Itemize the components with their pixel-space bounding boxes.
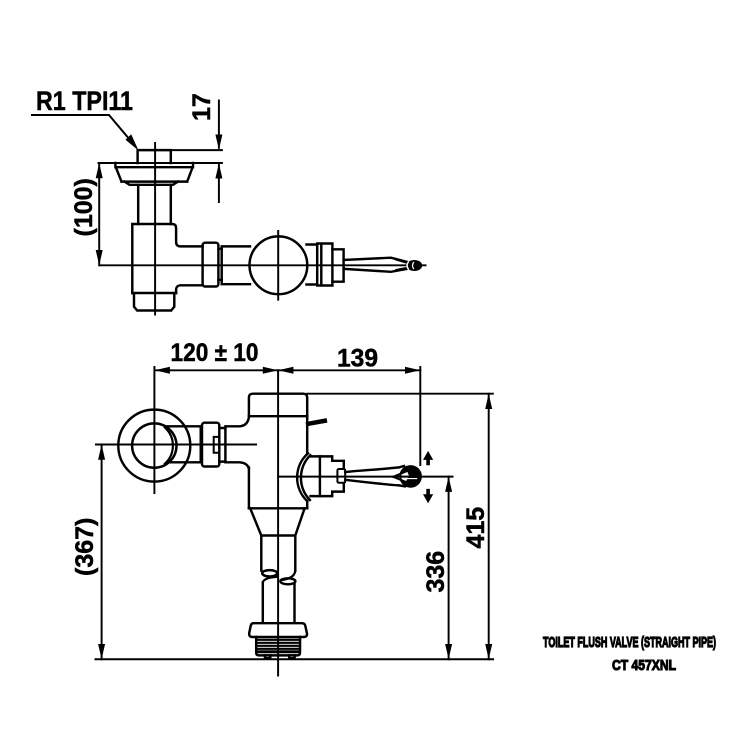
svg-text:415: 415 [462,507,490,549]
thread line 1 [256,639,300,641]
knob outline [400,466,421,487]
dim (100) arrow down [96,250,103,265]
nut on horizontal pipe [203,243,219,287]
arrow right at 420.3 [405,367,420,374]
dim 336 arrow down [445,644,452,659]
body cap [249,394,307,417]
body sides [249,416,307,508]
nut notch [214,437,220,453]
dim line 139 [278,369,420,371]
inlet inner circle [132,423,176,467]
tick mark (stop screw) [308,421,325,424]
dim 17 lower line [218,163,220,202]
threaded section [256,637,300,655]
pipe into body [225,418,249,469]
ring 3 [332,249,343,281]
dim line 120 [155,369,279,371]
svg-text:CT 457XNL: CT 457XNL [612,657,676,674]
lower pipe [263,583,295,622]
nut top extension line to dim 17 [171,149,222,151]
dim 415 line [488,394,490,660]
dim 17 arrow up [215,163,222,178]
arrow left at 154.6 [155,367,170,374]
movement arrow up [423,451,433,465]
dim 415 arrow up [485,394,492,409]
extension line right (lever tip) [419,367,421,465]
inlet pipe end [200,426,202,462]
collar [337,469,345,483]
knob white slit [405,478,417,479]
pipe joint upper ellipse [262,570,277,576]
inlet vertical centerline [153,367,155,493]
thread dark band [257,650,299,653]
thread line 3 [256,645,300,647]
pipe joint upper right curve [281,571,295,580]
dim (367) arrow down [98,644,105,659]
collar [218,249,221,280]
thread line 2 [256,642,300,644]
ring 2 [317,244,332,286]
valve vertical centerline [277,370,279,675]
dim 17 upper line [218,101,220,148]
dim 415 arrow down [485,644,492,659]
dim (367) arrow up [98,445,105,460]
pipe segment 2 [222,246,250,284]
svg-text:(100): (100) [70,178,98,236]
ground line [96,658,494,660]
body cap bottom seam [249,415,307,417]
nut (top pipe end) [138,150,171,163]
body bottom [249,507,307,509]
arrow right at 278.1 (120 dim) [263,367,278,374]
pipe segment 3 after ball [307,245,318,285]
vertical pipe below body [261,536,295,571]
lever arm bottom [345,480,405,487]
handle socket block [311,456,344,496]
dim (100) arrow up [96,163,103,178]
flange top line with extension [99,162,222,164]
lever arm top [345,466,404,472]
lever blade (top view) [344,258,411,272]
knob wedge edges [393,470,409,482]
svg-text:336: 336 [422,551,450,593]
handle bell flare inner [301,455,310,500]
ball vertical centerline [277,231,279,300]
leader arrowhead [126,134,139,150]
inlet outer circle [118,410,190,482]
lever centerline / 336 extension [278,476,452,478]
body taper [250,508,304,535]
inlet pipe [167,426,201,462]
svg-text:120 ± 10: 120 ± 10 [171,339,259,367]
body bottom section [132,293,176,311]
top view vertical centerline [154,143,156,315]
svg-text:139: 139 [337,345,378,373]
bottom cap [249,623,307,637]
dim (100) line [98,163,100,265]
vertical pipe below flange [138,185,171,224]
bottom feet [265,655,295,658]
dim 17 arrow down [215,135,222,150]
dim (367) line [101,445,103,660]
thread line 4 [256,648,300,650]
lever knob (front) [400,466,421,487]
movement arrow down [423,489,433,503]
svg-text:(367): (367) [71,518,99,576]
inlet nut [202,423,219,467]
handle bell flare outer [297,453,308,501]
ball (valve sphere, top view) [250,236,308,294]
flange body [115,163,193,182]
svg-text:R1 TPI11: R1 TPI11 [36,86,133,116]
knob white wedge [393,471,409,482]
pipe joint lower ellipse [280,578,295,584]
lever nib lines (top view) [396,260,409,270]
svg-text:17: 17 [188,93,216,121]
inlet horizontal centerline [96,444,256,446]
svg-text:TOILET FLUSH VALVE (STRAIGHT P: TOILET FLUSH VALVE (STRAIGHT PIPE) [543,634,716,651]
dim 415 top extension [307,393,493,395]
top view horizontal centerline [100,264,426,266]
dim 336 line [448,477,450,660]
arrow left at 278.1 (139 dim) [278,367,293,374]
valve body (top view) [132,224,202,293]
lever knob (top view) [407,261,421,270]
dim 336 arrow up [445,477,452,492]
inlet crescent [165,428,173,464]
flange bottom lip [125,182,179,185]
socket seam line [319,456,321,496]
small adapter piece [219,428,225,462]
pipe joint lower left curve [263,577,277,583]
leader line [32,115,136,147]
